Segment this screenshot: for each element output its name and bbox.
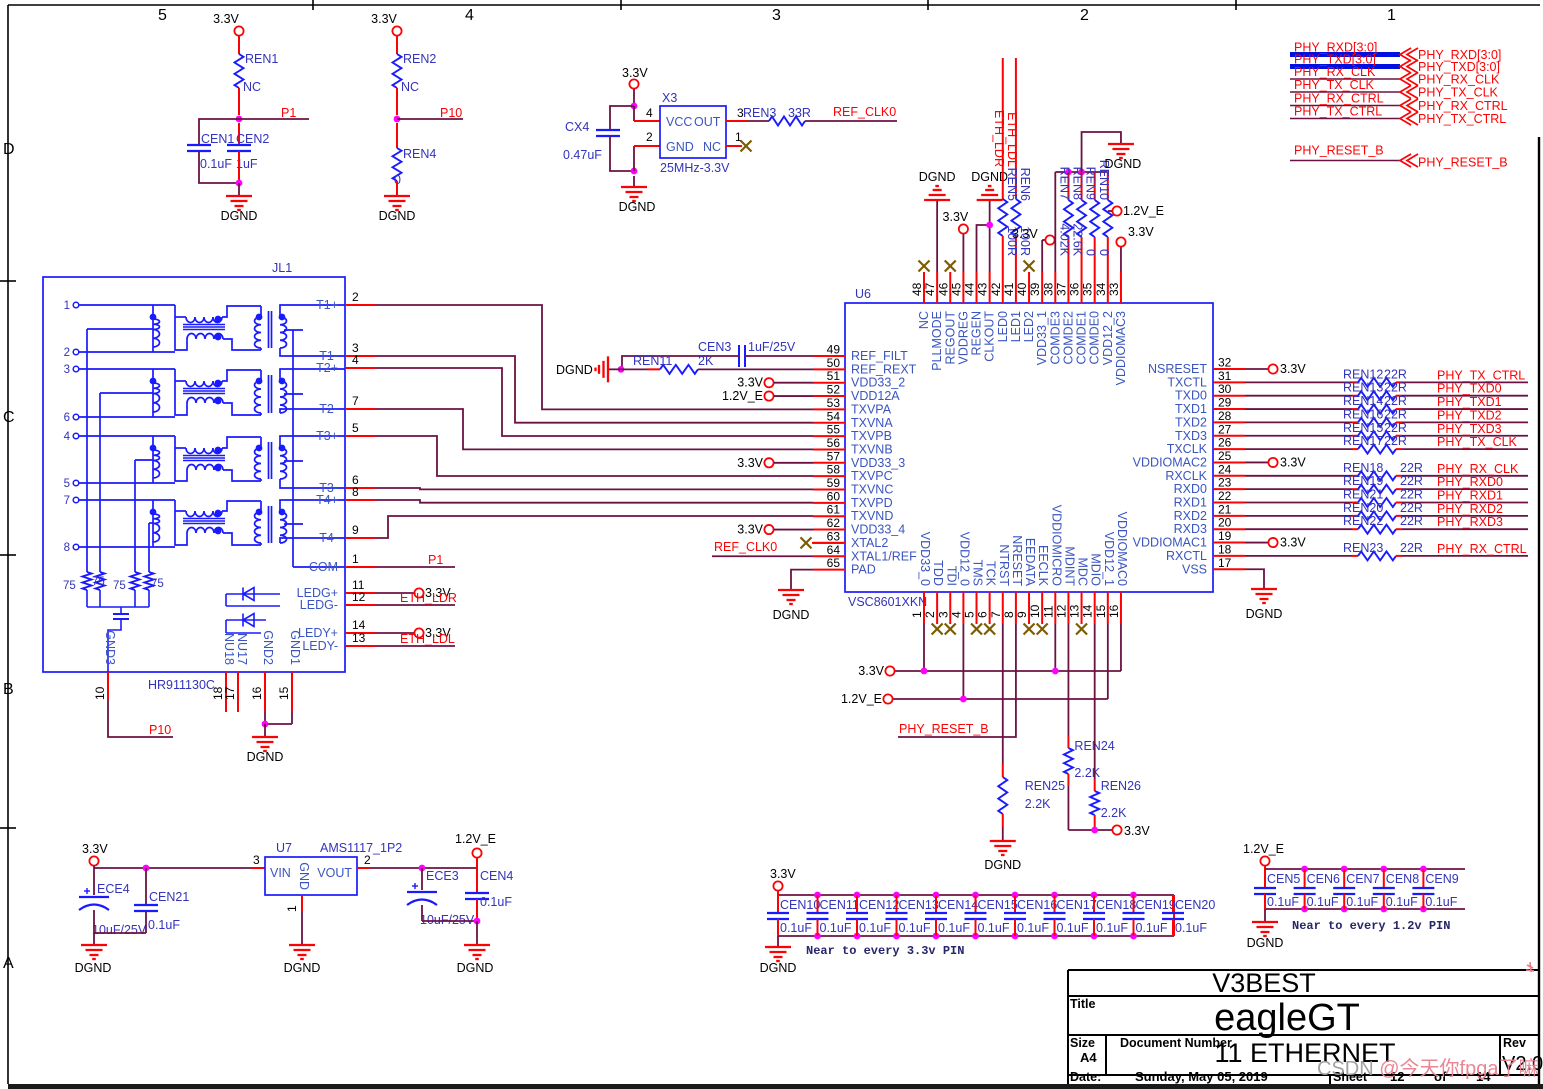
svg-text:28: 28 bbox=[1218, 409, 1232, 423]
svg-text:REN7: REN7 bbox=[1057, 167, 1071, 200]
svg-text:4: 4 bbox=[64, 431, 71, 443]
svg-text:REF_REXT: REF_REXT bbox=[851, 362, 917, 376]
svg-text:REN9: REN9 bbox=[1084, 167, 1098, 200]
svg-text:P1: P1 bbox=[281, 106, 296, 120]
svg-text:0.1uF: 0.1uF bbox=[1267, 895, 1299, 909]
svg-text:CEN6: CEN6 bbox=[1307, 872, 1340, 886]
svg-text:3.3V: 3.3V bbox=[737, 523, 763, 537]
svg-text:VDDIOMAC2: VDDIOMAC2 bbox=[1133, 455, 1207, 469]
svg-text:A: A bbox=[3, 955, 14, 972]
svg-text:TDI: TDI bbox=[944, 566, 958, 586]
svg-text:T4-: T4- bbox=[319, 531, 338, 545]
svg-text:4: 4 bbox=[352, 353, 359, 367]
svg-text:PHY_RX_CLK: PHY_RX_CLK bbox=[1437, 462, 1519, 476]
svg-text:2.2K: 2.2K bbox=[1101, 806, 1127, 820]
svg-text:REN13: REN13 bbox=[1343, 381, 1383, 395]
svg-text:CEN11: CEN11 bbox=[820, 898, 859, 912]
svg-text:2: 2 bbox=[923, 611, 937, 618]
svg-text:U6: U6 bbox=[855, 287, 871, 301]
svg-text:REN20: REN20 bbox=[1343, 501, 1383, 515]
svg-text:DGND: DGND bbox=[379, 209, 416, 223]
svg-text:DGND: DGND bbox=[75, 961, 112, 975]
svg-text:37: 37 bbox=[1054, 282, 1068, 296]
svg-text:3: 3 bbox=[253, 853, 260, 867]
svg-text:22: 22 bbox=[1218, 489, 1232, 503]
svg-text:REN17: REN17 bbox=[1343, 434, 1383, 448]
svg-text:15: 15 bbox=[1094, 604, 1108, 618]
svg-text:EECLK: EECLK bbox=[1036, 545, 1050, 587]
svg-text:P10: P10 bbox=[440, 106, 462, 120]
svg-text:1uF/25V: 1uF/25V bbox=[748, 340, 796, 354]
svg-text:LEDY+: LEDY+ bbox=[298, 626, 338, 640]
svg-text:5: 5 bbox=[352, 421, 359, 435]
svg-text:eagleGT: eagleGT bbox=[1214, 997, 1360, 1039]
svg-text:Title: Title bbox=[1070, 997, 1096, 1011]
svg-text:7: 7 bbox=[64, 495, 70, 507]
svg-text:PHY_TX_CTRL: PHY_TX_CTRL bbox=[1418, 112, 1506, 126]
svg-text:9: 9 bbox=[352, 523, 359, 537]
svg-text:REF_CLK0: REF_CLK0 bbox=[833, 105, 896, 119]
svg-text:VDDIOMICRO: VDDIOMICRO bbox=[1049, 505, 1063, 587]
svg-text:13: 13 bbox=[352, 631, 366, 645]
svg-text:U7: U7 bbox=[276, 841, 292, 855]
svg-text:0.1uF: 0.1uF bbox=[1425, 895, 1457, 909]
svg-text:REN15: REN15 bbox=[1343, 421, 1383, 435]
svg-text:2.2K: 2.2K bbox=[1074, 766, 1100, 780]
svg-text:59: 59 bbox=[827, 476, 841, 490]
svg-text:13: 13 bbox=[1068, 604, 1082, 618]
svg-text:REN26: REN26 bbox=[1101, 779, 1141, 793]
svg-text:VDD12_0: VDD12_0 bbox=[957, 532, 971, 586]
svg-text:LED0: LED0 bbox=[996, 311, 1010, 342]
svg-text:6: 6 bbox=[64, 412, 70, 424]
svg-text:22R: 22R bbox=[1400, 501, 1423, 515]
svg-text:10uF/25V: 10uF/25V bbox=[92, 923, 147, 937]
svg-text:75: 75 bbox=[63, 580, 76, 592]
svg-text:NC: NC bbox=[243, 80, 261, 94]
svg-text:15: 15 bbox=[277, 686, 291, 700]
svg-text:VDDIOMAC3: VDDIOMAC3 bbox=[1114, 311, 1128, 385]
svg-text:0.1uF: 0.1uF bbox=[1386, 895, 1418, 909]
svg-text:56: 56 bbox=[827, 436, 841, 450]
svg-text:57: 57 bbox=[827, 449, 841, 463]
svg-text:Near to every 3.3v PIN: Near to every 3.3v PIN bbox=[806, 944, 964, 958]
svg-text:REGEN: REGEN bbox=[970, 311, 984, 355]
svg-text:CEN16: CEN16 bbox=[1017, 898, 1057, 912]
svg-text:3.3V: 3.3V bbox=[1124, 824, 1150, 838]
svg-text:LED1: LED1 bbox=[1009, 311, 1023, 342]
svg-text:PHY_RX_CLK: PHY_RX_CLK bbox=[1418, 73, 1500, 87]
svg-text:NC: NC bbox=[917, 311, 931, 329]
svg-text:8: 8 bbox=[1002, 611, 1016, 618]
svg-text:36: 36 bbox=[1068, 282, 1082, 296]
svg-text:30: 30 bbox=[1218, 382, 1232, 396]
svg-text:X3: X3 bbox=[662, 91, 677, 105]
svg-text:5: 5 bbox=[963, 611, 977, 618]
svg-text:T1+: T1+ bbox=[316, 298, 338, 312]
svg-text:12: 12 bbox=[352, 590, 366, 604]
svg-text:CEN10: CEN10 bbox=[780, 898, 820, 912]
svg-text:TXCLK: TXCLK bbox=[1167, 442, 1208, 456]
svg-text:50: 50 bbox=[827, 356, 841, 370]
svg-text:3: 3 bbox=[772, 7, 781, 24]
svg-text:RXD1: RXD1 bbox=[1174, 496, 1207, 510]
svg-text:OUT: OUT bbox=[694, 115, 721, 129]
svg-text:DGND: DGND bbox=[556, 363, 593, 377]
svg-text:VDD12_1: VDD12_1 bbox=[1102, 532, 1116, 586]
svg-text:5: 5 bbox=[64, 478, 70, 490]
svg-text:0.1uF: 0.1uF bbox=[820, 921, 852, 935]
svg-text:T4+: T4+ bbox=[316, 493, 338, 507]
svg-text:RXD2: RXD2 bbox=[1174, 509, 1207, 523]
svg-text:22R: 22R bbox=[1400, 514, 1423, 528]
svg-text:1: 1 bbox=[352, 552, 359, 566]
svg-text:18: 18 bbox=[1218, 542, 1232, 556]
svg-text:16: 16 bbox=[250, 686, 264, 700]
svg-text:12: 12 bbox=[1054, 604, 1068, 618]
svg-text:47: 47 bbox=[923, 282, 937, 296]
svg-text:TXVNC: TXVNC bbox=[851, 483, 893, 497]
svg-text:AMS1117_1P2: AMS1117_1P2 bbox=[320, 841, 402, 855]
svg-text:CEN18: CEN18 bbox=[1096, 898, 1136, 912]
svg-text:3.3V: 3.3V bbox=[737, 376, 763, 390]
svg-text:17: 17 bbox=[223, 686, 237, 700]
svg-text:DGND: DGND bbox=[773, 608, 810, 622]
svg-text:45: 45 bbox=[949, 282, 963, 296]
svg-text:DGND: DGND bbox=[1247, 936, 1284, 950]
svg-text:3.3V: 3.3V bbox=[371, 12, 397, 26]
svg-text:3.3V: 3.3V bbox=[622, 66, 648, 80]
svg-text:LED2: LED2 bbox=[1022, 311, 1036, 342]
svg-text:T2+: T2+ bbox=[316, 361, 338, 375]
svg-text:2: 2 bbox=[364, 853, 371, 867]
svg-text:CEN21: CEN21 bbox=[149, 890, 189, 904]
svg-text:75: 75 bbox=[92, 576, 105, 588]
svg-text:Sunday, May 05, 2019: Sunday, May 05, 2019 bbox=[1135, 1069, 1268, 1084]
svg-text:REN22: REN22 bbox=[1343, 514, 1383, 528]
svg-text:VDD33_0: VDD33_0 bbox=[918, 532, 932, 586]
svg-text:COMDE2: COMDE2 bbox=[1061, 311, 1075, 365]
svg-text:VDDREG: VDDREG bbox=[956, 311, 970, 364]
svg-text:CX4: CX4 bbox=[565, 120, 589, 134]
svg-text:TXD3: TXD3 bbox=[1175, 429, 1207, 443]
svg-text:4.02K: 4.02K bbox=[1057, 223, 1071, 256]
svg-text:19: 19 bbox=[1218, 529, 1232, 543]
svg-text:DGND: DGND bbox=[457, 961, 494, 975]
svg-text:1: 1 bbox=[64, 300, 70, 312]
svg-text:Size: Size bbox=[1070, 1036, 1095, 1050]
svg-text:NTRST: NTRST bbox=[997, 544, 1011, 586]
svg-text:NSRESET: NSRESET bbox=[1148, 362, 1207, 376]
svg-text:7: 7 bbox=[352, 394, 359, 408]
svg-text:DGND: DGND bbox=[1105, 157, 1142, 171]
svg-text:24: 24 bbox=[1218, 462, 1232, 476]
svg-text:GND: GND bbox=[297, 862, 311, 890]
svg-text:CEN8: CEN8 bbox=[1386, 872, 1419, 886]
svg-text:10: 10 bbox=[1028, 604, 1042, 618]
svg-text:32: 32 bbox=[1218, 356, 1232, 370]
svg-text:CEN14: CEN14 bbox=[938, 898, 978, 912]
svg-text:VDD33_3: VDD33_3 bbox=[851, 456, 905, 470]
svg-text:1.2V_E: 1.2V_E bbox=[1243, 842, 1284, 856]
svg-text:COMDE1: COMDE1 bbox=[1075, 311, 1089, 365]
svg-text:3.3V: 3.3V bbox=[82, 842, 108, 856]
svg-text:0.1uF: 0.1uF bbox=[200, 157, 232, 171]
svg-text:2.2K: 2.2K bbox=[1025, 797, 1051, 811]
svg-text:PHY_RX_CTRL: PHY_RX_CTRL bbox=[1294, 92, 1384, 106]
svg-text:16: 16 bbox=[1107, 604, 1121, 618]
svg-text:0.1uF: 0.1uF bbox=[1057, 921, 1089, 935]
svg-text:ECE4: ECE4 bbox=[97, 882, 130, 896]
svg-text:RXD3: RXD3 bbox=[1174, 522, 1207, 536]
svg-text:CEN17: CEN17 bbox=[1057, 898, 1097, 912]
svg-text:33R: 33R bbox=[788, 106, 811, 120]
svg-text:DGND: DGND bbox=[984, 858, 1021, 872]
svg-text:3: 3 bbox=[936, 611, 950, 618]
svg-text:TXD2: TXD2 bbox=[1175, 415, 1207, 429]
svg-text:VOUT: VOUT bbox=[317, 866, 352, 880]
svg-text:DGND: DGND bbox=[619, 200, 656, 214]
svg-text:PHY_TX_CLK: PHY_TX_CLK bbox=[1294, 78, 1375, 92]
svg-text:63: 63 bbox=[827, 529, 841, 543]
svg-text:43: 43 bbox=[976, 282, 990, 296]
svg-text:REF_CLK0: REF_CLK0 bbox=[714, 540, 777, 554]
svg-text:PHY_TXD3: PHY_TXD3 bbox=[1437, 422, 1502, 436]
svg-text:0.1uF: 0.1uF bbox=[938, 921, 970, 935]
svg-text:VDD12A: VDD12A bbox=[851, 389, 900, 403]
svg-text:0.1uF: 0.1uF bbox=[1096, 921, 1128, 935]
svg-text:TXVND: TXVND bbox=[851, 509, 893, 523]
svg-text:EEDATA: EEDATA bbox=[1023, 538, 1037, 587]
svg-text:0.1uF: 0.1uF bbox=[1307, 895, 1339, 909]
svg-text:22R: 22R bbox=[1400, 488, 1423, 502]
svg-text:2: 2 bbox=[1080, 7, 1089, 24]
svg-text:1: 1 bbox=[1387, 7, 1396, 24]
svg-text:TXVNB: TXVNB bbox=[851, 442, 893, 456]
svg-text:REN6: REN6 bbox=[1018, 168, 1032, 201]
svg-text:VIN: VIN bbox=[270, 866, 291, 880]
svg-text:22R: 22R bbox=[1400, 461, 1423, 475]
svg-text:Rev: Rev bbox=[1503, 1036, 1526, 1050]
svg-text:10: 10 bbox=[93, 686, 107, 700]
svg-text:ETH_LDL: ETH_LDL bbox=[1005, 112, 1019, 167]
svg-text:26: 26 bbox=[1218, 436, 1232, 450]
svg-text:27: 27 bbox=[1218, 422, 1232, 436]
svg-text:1.2V_E: 1.2V_E bbox=[722, 389, 763, 403]
svg-text:58: 58 bbox=[827, 463, 841, 477]
svg-text:34: 34 bbox=[1094, 282, 1108, 296]
svg-text:T3+: T3+ bbox=[316, 429, 338, 443]
svg-text:23: 23 bbox=[1218, 476, 1232, 490]
svg-text:4: 4 bbox=[465, 7, 474, 24]
svg-text:PHY_RESET_B: PHY_RESET_B bbox=[1418, 156, 1508, 170]
svg-text:75: 75 bbox=[113, 580, 126, 592]
svg-text:6: 6 bbox=[976, 611, 990, 618]
svg-text:3.3V: 3.3V bbox=[1280, 362, 1306, 376]
svg-text:Date:: Date: bbox=[1070, 1070, 1101, 1084]
svg-text:2: 2 bbox=[646, 130, 653, 144]
svg-text:DGND: DGND bbox=[221, 209, 258, 223]
svg-text:0.1uF: 0.1uF bbox=[480, 895, 512, 909]
svg-text:52: 52 bbox=[827, 383, 841, 397]
svg-text:0.1uF: 0.1uF bbox=[1136, 921, 1168, 935]
svg-text:P10: P10 bbox=[149, 723, 171, 737]
svg-text:11: 11 bbox=[1041, 605, 1055, 618]
svg-text:REN2: REN2 bbox=[403, 52, 436, 66]
svg-text:PHY_RX_CTRL: PHY_RX_CTRL bbox=[1437, 542, 1527, 556]
svg-text:VDD12_2: VDD12_2 bbox=[1101, 311, 1115, 365]
svg-text:14: 14 bbox=[1081, 604, 1095, 618]
svg-text:46: 46 bbox=[936, 282, 950, 296]
svg-text:3.3V: 3.3V bbox=[213, 12, 239, 26]
svg-text:PHY_RX_CTRL: PHY_RX_CTRL bbox=[1418, 99, 1508, 113]
svg-text:PHY_TXD0: PHY_TXD0 bbox=[1437, 382, 1502, 396]
svg-text:ETH_LDR: ETH_LDR bbox=[992, 110, 1006, 167]
svg-text:REN25: REN25 bbox=[1025, 779, 1065, 793]
svg-text:ETH_LDR: ETH_LDR bbox=[400, 591, 457, 605]
svg-text:35: 35 bbox=[1081, 282, 1095, 296]
svg-text:17: 17 bbox=[1218, 556, 1232, 570]
svg-text:0: 0 bbox=[1084, 249, 1098, 256]
svg-text:REGOUT: REGOUT bbox=[943, 311, 957, 365]
svg-text:65: 65 bbox=[827, 556, 841, 570]
svg-text:DGND: DGND bbox=[1246, 607, 1283, 621]
svg-text:REN19: REN19 bbox=[1343, 474, 1383, 488]
svg-text:GND: GND bbox=[666, 140, 694, 154]
svg-text:75: 75 bbox=[151, 578, 164, 590]
svg-text:C: C bbox=[3, 409, 15, 426]
svg-text:2: 2 bbox=[352, 290, 359, 304]
svg-text:CEN1: CEN1 bbox=[201, 132, 234, 146]
svg-text:REN5: REN5 bbox=[1005, 168, 1019, 201]
svg-text:ETH_LDL: ETH_LDL bbox=[400, 632, 455, 646]
svg-text:VDD33_4: VDD33_4 bbox=[851, 523, 905, 537]
svg-text:TCK: TCK bbox=[984, 561, 998, 587]
svg-text:40: 40 bbox=[1015, 282, 1029, 296]
svg-text:REN4: REN4 bbox=[403, 147, 436, 161]
svg-text:NRESET: NRESET bbox=[1010, 535, 1024, 586]
svg-text:3.3V: 3.3V bbox=[1280, 536, 1306, 550]
svg-text:CEN7: CEN7 bbox=[1346, 872, 1379, 886]
svg-text:REN11: REN11 bbox=[633, 354, 672, 368]
svg-text:3.3V: 3.3V bbox=[770, 867, 796, 881]
svg-text:HR911130C: HR911130C bbox=[148, 678, 215, 692]
svg-text:DGND: DGND bbox=[284, 961, 321, 975]
svg-text:3.3V: 3.3V bbox=[943, 210, 969, 224]
svg-text:GND3: GND3 bbox=[103, 630, 117, 665]
svg-text:V3BEST: V3BEST bbox=[1212, 968, 1316, 998]
svg-text:1: 1 bbox=[910, 611, 924, 618]
svg-text:51: 51 bbox=[827, 369, 841, 383]
svg-text:25MHz-3.3V: 25MHz-3.3V bbox=[660, 161, 730, 175]
svg-text:COMDE0: COMDE0 bbox=[1088, 311, 1102, 365]
svg-text:3.3V: 3.3V bbox=[1128, 225, 1154, 239]
svg-text:CEN13: CEN13 bbox=[899, 898, 939, 912]
svg-text:60: 60 bbox=[827, 489, 841, 503]
svg-text:XTAL2: XTAL2 bbox=[851, 536, 888, 550]
svg-text:5: 5 bbox=[158, 7, 167, 24]
svg-text:44: 44 bbox=[963, 282, 977, 296]
svg-text:22R: 22R bbox=[1384, 367, 1407, 381]
svg-text:REN16: REN16 bbox=[1343, 407, 1383, 421]
svg-text:CLKOUT: CLKOUT bbox=[983, 311, 997, 362]
svg-text:REN18: REN18 bbox=[1343, 461, 1383, 475]
svg-text:VDD33_1: VDD33_1 bbox=[1035, 311, 1049, 365]
svg-text:VCC: VCC bbox=[666, 115, 692, 129]
svg-text:0.1uF: 0.1uF bbox=[1017, 921, 1049, 935]
svg-text:0.1uF: 0.1uF bbox=[899, 921, 931, 935]
svg-text:CEN4: CEN4 bbox=[480, 869, 513, 883]
svg-text:D: D bbox=[3, 141, 15, 158]
svg-text:DGND: DGND bbox=[247, 750, 284, 764]
svg-text:3: 3 bbox=[64, 364, 70, 376]
svg-text:LEDY-: LEDY- bbox=[302, 639, 338, 653]
svg-text:TDD: TDD bbox=[931, 560, 945, 586]
svg-text:4: 4 bbox=[646, 106, 653, 120]
svg-text:PHY_RESET_B: PHY_RESET_B bbox=[899, 722, 989, 736]
svg-text:ECE3: ECE3 bbox=[426, 869, 459, 883]
svg-text:PHY_RXD0: PHY_RXD0 bbox=[1437, 475, 1503, 489]
svg-text:MDIO: MDIO bbox=[1089, 553, 1103, 586]
svg-text:TXVPB: TXVPB bbox=[851, 429, 892, 443]
svg-text:48: 48 bbox=[910, 282, 924, 296]
svg-text:PHY_TXD2: PHY_TXD2 bbox=[1437, 408, 1502, 422]
svg-text:REN14: REN14 bbox=[1343, 394, 1383, 408]
svg-text:9: 9 bbox=[1015, 611, 1029, 618]
svg-text:0.1uF: 0.1uF bbox=[978, 921, 1010, 935]
svg-text:0.1uF: 0.1uF bbox=[780, 921, 812, 935]
svg-text:64: 64 bbox=[827, 543, 841, 557]
svg-text:2: 2 bbox=[64, 347, 70, 359]
svg-text:22R: 22R bbox=[1384, 407, 1407, 421]
svg-text:0.1uF: 0.1uF bbox=[1175, 921, 1207, 935]
svg-text:0.1uF: 0.1uF bbox=[859, 921, 891, 935]
svg-text:0.1uF: 0.1uF bbox=[148, 918, 180, 932]
svg-text:RXD0: RXD0 bbox=[1174, 482, 1207, 496]
svg-text:MDINT: MDINT bbox=[1062, 546, 1076, 586]
svg-text:PHY_RXD3: PHY_RXD3 bbox=[1437, 515, 1503, 529]
svg-text:31: 31 bbox=[1218, 369, 1232, 383]
svg-text:29: 29 bbox=[1218, 396, 1232, 410]
svg-text:VSS: VSS bbox=[1182, 562, 1207, 576]
svg-text:REN3: REN3 bbox=[743, 106, 776, 120]
svg-text:PHY_TX_CTRL: PHY_TX_CTRL bbox=[1437, 368, 1525, 382]
svg-text:TXVNA: TXVNA bbox=[851, 416, 893, 430]
svg-text:0.47uF: 0.47uF bbox=[563, 148, 602, 162]
svg-text:PHY_TX_CLK: PHY_TX_CLK bbox=[1437, 435, 1518, 449]
svg-text:DGND: DGND bbox=[760, 961, 797, 975]
svg-text:TMS: TMS bbox=[971, 560, 985, 586]
svg-text:LEDG-: LEDG- bbox=[300, 598, 338, 612]
svg-text:14: 14 bbox=[352, 618, 366, 632]
svg-text:VDDIOMAC0: VDDIOMAC0 bbox=[1115, 512, 1129, 586]
svg-text:61: 61 bbox=[827, 503, 841, 517]
svg-text:1: 1 bbox=[285, 905, 299, 912]
svg-text:TXVPA: TXVPA bbox=[851, 402, 892, 416]
svg-text:49: 49 bbox=[827, 343, 841, 357]
svg-text:REN12: REN12 bbox=[1343, 367, 1383, 381]
svg-text:22R: 22R bbox=[1384, 421, 1407, 435]
svg-text:REN1: REN1 bbox=[245, 52, 278, 66]
svg-text:Near to every 1.2v PIN: Near to every 1.2v PIN bbox=[1292, 919, 1450, 933]
svg-text:TXD1: TXD1 bbox=[1175, 402, 1207, 416]
svg-text:CEN12: CEN12 bbox=[859, 898, 899, 912]
svg-text:PHY_RESET_B: PHY_RESET_B bbox=[1294, 144, 1384, 158]
svg-text:2K: 2K bbox=[698, 354, 714, 368]
svg-text:P1: P1 bbox=[428, 553, 443, 567]
svg-text:62: 62 bbox=[827, 516, 841, 530]
svg-text:CSDN @今天你fpga了嘛: CSDN @今天你fpga了嘛 bbox=[1317, 1057, 1538, 1080]
